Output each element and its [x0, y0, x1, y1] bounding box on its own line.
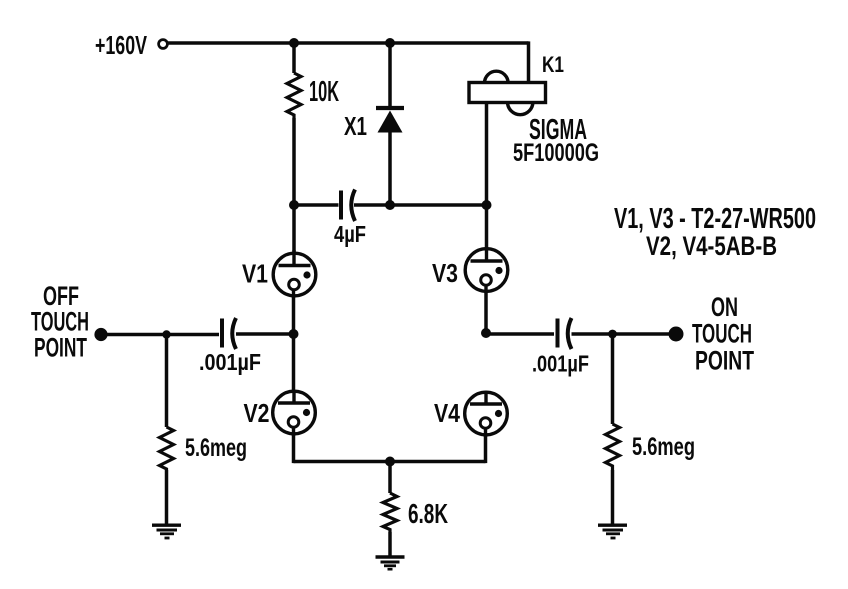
ground right: [598, 525, 627, 538]
capacitor C2 .001uF left: [199, 318, 261, 375]
svg-text:.001µF: .001µF: [532, 351, 589, 377]
wire node A to V3: [485, 205, 489, 250]
wire off node to 5.6meg: [165, 335, 169, 428]
svg-text:V2: V2: [244, 398, 270, 428]
wire cap to V1/V2 node: [236, 332, 294, 336]
wire V4 to cathode rail: [484, 434, 488, 463]
wire V3 to on-node: [484, 291, 488, 334]
resistor R3 5.6meg left: [160, 427, 248, 525]
svg-text:+160V: +160V: [95, 30, 147, 60]
tube V4: [434, 392, 507, 437]
junction cathode node: [385, 457, 395, 467]
svg-text:TOUCH: TOUCH: [692, 319, 752, 349]
wire cap to on terminal: [572, 332, 677, 336]
node OFF TOUCH POINT terminal: [31, 281, 108, 363]
label SIGMA 5F10000G: [513, 114, 599, 167]
capacitor C1 4uF: [334, 190, 366, 248]
node +160V supply terminal: [95, 30, 167, 60]
tube V1: [242, 250, 316, 298]
svg-text:V3: V3: [432, 258, 458, 288]
svg-text:ON: ON: [711, 292, 738, 322]
svg-text:X1: X1: [344, 111, 367, 141]
svg-text:POINT: POINT: [34, 333, 87, 363]
svg-text:5.6meg: 5.6meg: [632, 433, 695, 461]
svg-text:K1: K1: [542, 52, 564, 77]
junction top-left (10K tap): [289, 38, 299, 48]
wire relay drop: [527, 41, 531, 84]
resistor R1 10K: [287, 43, 339, 205]
tube V2: [244, 391, 316, 436]
svg-text:6.8K: 6.8K: [408, 498, 448, 529]
svg-text:5F10000G: 5F10000G: [513, 139, 599, 167]
svg-text:10K: 10K: [309, 76, 339, 108]
ground center: [376, 557, 405, 569]
resistor R4 5.6meg right: [606, 424, 696, 525]
svg-text:V4: V4: [434, 398, 460, 428]
svg-text:V1: V1: [242, 259, 268, 289]
diode X1: [344, 43, 404, 205]
resistor R2 6.8K: [383, 462, 448, 557]
ground left: [152, 525, 181, 538]
wire off node to V2: [292, 334, 296, 393]
wire on node to 5.6meg: [611, 334, 615, 424]
wire cathode rail: [294, 460, 486, 464]
node ON TOUCH POINT terminal: [669, 292, 755, 376]
wire off terminal to cap: [101, 333, 219, 337]
junction V1/V2 node: [289, 329, 299, 339]
wire relay to node A: [485, 102, 489, 205]
junction on node (5.6meg tap right): [608, 330, 617, 339]
wire top rail: [167, 41, 529, 45]
svg-text:.001µF: .001µF: [199, 349, 261, 375]
junction node A left: [289, 200, 299, 210]
junction node A mid (X1 bottom): [385, 200, 395, 210]
svg-text:5.6meg: 5.6meg: [185, 434, 247, 462]
svg-text:4µF: 4µF: [334, 221, 366, 247]
svg-text:POINT: POINT: [695, 346, 754, 376]
wire V2 to cathode rail: [292, 433, 296, 463]
junction node A right: [482, 200, 492, 210]
wire 4uF to right column: [354, 203, 487, 207]
svg-text:V2, V4-5AB-B: V2, V4-5AB-B: [646, 231, 777, 261]
wire V3/V4 node to cap right: [486, 332, 554, 336]
wire node A to V1: [292, 205, 296, 252]
wire V1 to off-node: [292, 295, 296, 334]
junction V3/V4 node: [481, 328, 491, 338]
label tube types note: [614, 203, 816, 261]
relay K1 coil: [469, 52, 564, 115]
junction off node (5.6meg tap): [162, 330, 170, 338]
wire node A horizontal (4uF line): [294, 203, 339, 207]
junction top-mid (X1 tap): [385, 38, 395, 48]
capacitor C3 .001uF right: [532, 318, 589, 377]
tube V3: [432, 248, 508, 293]
